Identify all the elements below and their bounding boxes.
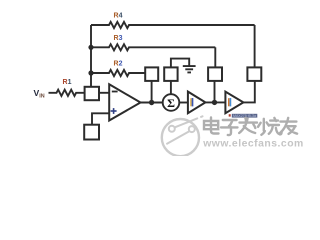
resistor R2 — [91, 70, 145, 76]
char fa — [239, 118, 257, 133]
wire integrator2 output up to pin box 4 — [243, 81, 254, 102]
node junction rail-R2 — [88, 70, 93, 75]
wire box2 to sigma — [170, 81, 172, 95]
node B — [212, 100, 217, 105]
watermark logo circle — [162, 116, 203, 156]
wire op-amp output to sigma — [141, 102, 164, 104]
svg-text:R2: R2 — [114, 60, 123, 67]
wire box2 top to ground — [171, 59, 189, 68]
resistor R4 — [91, 22, 255, 28]
node A (op-amp output) — [149, 100, 154, 105]
wire node A up to pin box 1 — [151, 81, 153, 103]
pin box 3 (R3 feedback pin) — [208, 67, 222, 81]
wire plus input — [92, 113, 109, 125]
svg-text:R4: R4 — [114, 13, 123, 20]
svg-text:www.elecfans.com: www.elecfans.com — [202, 138, 304, 149]
svg-text:Σ: Σ — [167, 96, 175, 110]
integrator 2 symbol — [228, 98, 230, 106]
char zi — [221, 120, 238, 135]
pin box 4 (R4 feedback pin) — [247, 67, 261, 81]
wire box to op-amp minus — [99, 92, 109, 94]
char shao — [258, 118, 282, 135]
ground — [183, 66, 196, 72]
svg-text:VIN: VIN — [34, 88, 45, 100]
node junction rail-R3 — [88, 45, 93, 50]
wire R4 right drop — [254, 25, 256, 67]
summing junction sigma — [163, 94, 180, 111]
svg-text:R1: R1 — [63, 79, 72, 86]
char dian — [204, 118, 219, 134]
plus sign — [111, 108, 117, 114]
integrator 1 — [188, 92, 206, 114]
wire left rail — [90, 25, 92, 87]
pin box at plus input — [84, 125, 99, 140]
pin box 2 (sigma top pin) — [164, 67, 177, 81]
wire sigma to integrator 1 — [179, 102, 188, 104]
integrator 2 — [225, 92, 243, 114]
resistor R1 — [49, 90, 86, 96]
watermark text 电子发烧友 (simplified strokes) — [205, 118, 298, 136]
op-amp U1 — [109, 84, 140, 120]
figure tag MAX275 — [229, 114, 258, 118]
minus sign — [112, 91, 118, 93]
pin box 1 (R2 feedback pin) — [145, 67, 158, 81]
integrator 1 symbol — [190, 98, 192, 106]
wire node B up to pin box 3 — [214, 81, 216, 102]
wire R3 right drop — [214, 47, 216, 67]
svg-text:R3: R3 — [114, 35, 123, 42]
resistor R3 — [91, 44, 215, 50]
pin box IN (summing input pin) — [85, 87, 99, 100]
wire integrator1 to integrator2 — [205, 101, 225, 103]
char you — [280, 118, 297, 134]
